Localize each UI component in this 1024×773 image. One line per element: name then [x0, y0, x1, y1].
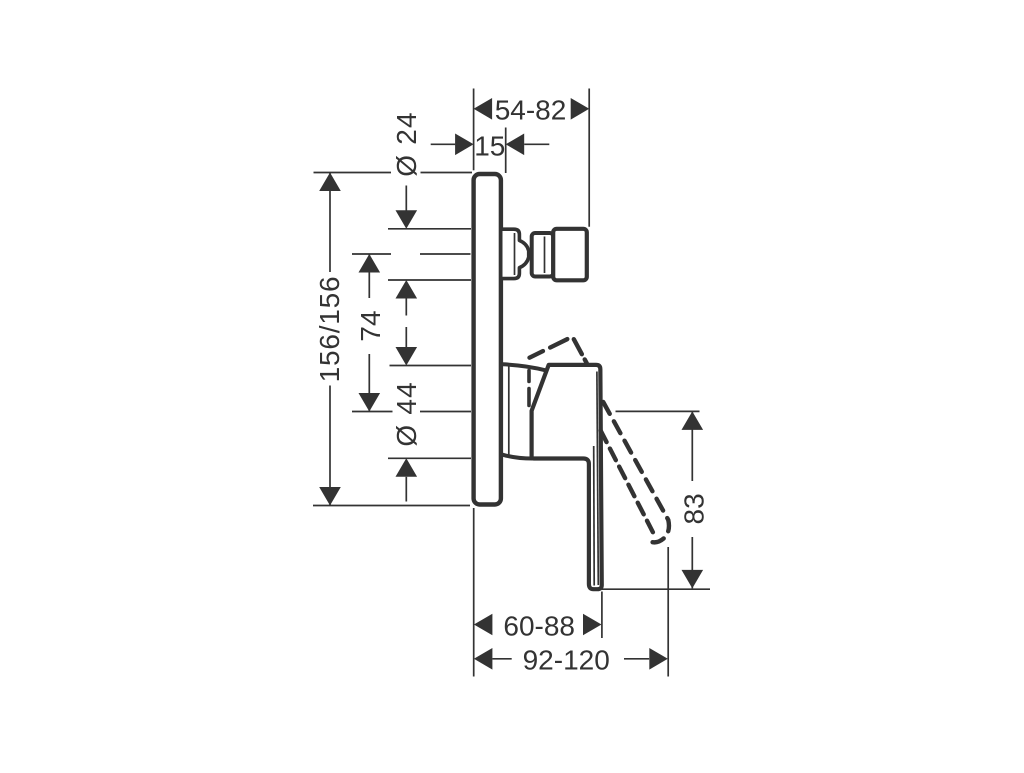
knob outer cap [553, 229, 587, 280]
dashed alternate handle corner edge [574, 339, 587, 363]
arrow 54-82 left [474, 98, 493, 120]
svg-text:83: 83 [679, 493, 710, 524]
wire diameter-44 stem bottom [405, 477, 407, 502]
arrow 92-120 right [649, 648, 668, 670]
wire 92-120 left leader [492, 658, 511, 660]
dimension 156/156 line [329, 173, 331, 506]
handle hub collar line [508, 367, 510, 457]
svg-text:Ø 44: Ø 44 [391, 381, 422, 447]
handle lever body [532, 365, 602, 589]
arrow diameter-24 bottom [396, 280, 418, 299]
label diameter 24 background [391, 106, 421, 181]
dimension 74 line [368, 254, 370, 412]
wire knob bottom extension [388, 279, 471, 281]
svg-text:92-120: 92-120 [523, 644, 610, 675]
label 156/156 background [316, 272, 344, 386]
arrow diameter-44 bottom [396, 458, 418, 477]
wire hub bottom extension [388, 457, 471, 459]
svg-text:156/156: 156/156 [314, 276, 345, 383]
knob flange inner line [514, 233, 516, 275]
label 83 background [680, 481, 706, 537]
dashed alternate lever left edge [601, 431, 653, 533]
knob middle inner line [544, 237, 546, 274]
arrow 60-88 right [583, 614, 602, 636]
svg-text:54-82: 54-82 [495, 95, 567, 126]
arrow 156/156 top [319, 173, 341, 192]
wire diameter-24 stem top [405, 186, 407, 211]
handle hub hidden edge dashes [527, 371, 531, 406]
wire diameter-24 stem bottom [405, 299, 407, 316]
wire diameter-44 stem top [405, 327, 407, 347]
handle lever inner line lower [593, 446, 596, 586]
arrow diameter-44 top [396, 347, 418, 366]
wire bottom middle extension [601, 592, 603, 639]
svg-text:60-88: 60-88 [503, 611, 575, 642]
wire extension line right of 15 [505, 128, 507, 174]
wire handle centerline [352, 411, 471, 413]
wire bottom left extension [473, 508, 475, 677]
handle hub bottom edge [503, 455, 534, 459]
arrow 15 right [506, 134, 525, 156]
wire hub top extension [390, 365, 472, 367]
label 74 background [357, 298, 383, 354]
dashed alternate lever right edge [603, 402, 669, 542]
wire 92-120 right leader [624, 658, 649, 660]
arrow 74 top [359, 254, 381, 273]
wire 15 left leader [431, 143, 456, 145]
wire bottom right extension [667, 547, 669, 677]
handle hub top edge [503, 364, 546, 370]
arrow 15 left [455, 134, 474, 156]
wire knob centerline left [352, 253, 391, 255]
wire 83 bottom reference [602, 588, 710, 590]
arrow 60-88 left [474, 614, 493, 636]
arrow 92-120 left [474, 648, 493, 670]
arrow 74 bottom [359, 393, 381, 412]
arrow 156/156 bottom [319, 487, 341, 506]
knob middle section [532, 233, 554, 277]
arrow 54-82 right [571, 98, 590, 120]
handle lever inner line outer [597, 372, 598, 586]
escutcheon plate [474, 174, 501, 505]
wire extension line right of 54-82 [588, 89, 590, 227]
arrow 83 top [682, 411, 704, 430]
dimension 83 line [691, 411, 693, 588]
knob flange [503, 229, 529, 278]
svg-text:Ø 24: Ø 24 [391, 111, 422, 177]
wire extension line left of 54-82 [473, 89, 475, 171]
wire plate bottom extension [313, 505, 470, 507]
wire 83 top reference [616, 410, 700, 412]
label diameter 44 background [393, 378, 421, 449]
wire 15 right leader [524, 143, 549, 145]
wire plate top extension [314, 172, 473, 174]
wire knob top extension [388, 228, 471, 230]
arrow 83 bottom [682, 570, 704, 589]
svg-text:15: 15 [474, 130, 505, 161]
wire knob centerline right [420, 253, 471, 255]
svg-text:74: 74 [355, 310, 386, 341]
dashed alternate handle top edge [530, 339, 568, 358]
arrow diameter-24 top [396, 210, 418, 229]
